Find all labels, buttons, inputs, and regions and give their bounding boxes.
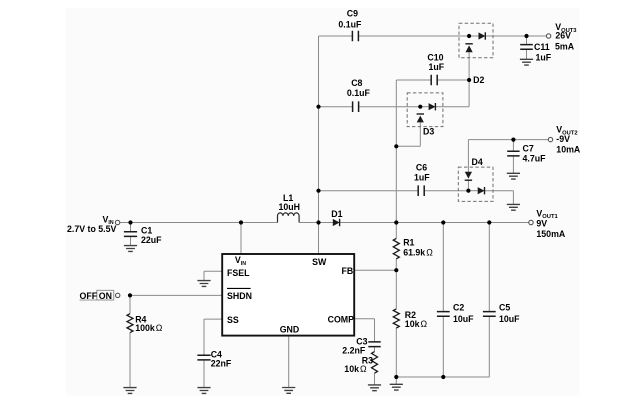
svg-text:R1: R1 xyxy=(403,238,414,248)
svg-text:C1: C1 xyxy=(141,226,152,236)
svg-text:D1: D1 xyxy=(331,209,342,219)
svg-text:1uF: 1uF xyxy=(429,62,445,72)
svg-text:C6: C6 xyxy=(416,162,427,172)
svg-text:-9V: -9V xyxy=(556,134,570,144)
svg-text:5mA: 5mA xyxy=(555,41,575,51)
svg-text:1uF: 1uF xyxy=(414,172,430,182)
svg-text:D3: D3 xyxy=(423,127,434,137)
svg-text:26V: 26V xyxy=(555,31,571,41)
svg-text:0.1uF: 0.1uF xyxy=(347,88,371,98)
svg-text:ON: ON xyxy=(99,291,112,301)
svg-text:10uH: 10uH xyxy=(279,202,301,212)
svg-text:SS: SS xyxy=(227,315,239,325)
svg-text:C2: C2 xyxy=(453,302,464,312)
svg-text:4.7uF: 4.7uF xyxy=(523,153,547,163)
svg-text:10kΩ: 10kΩ xyxy=(405,319,428,329)
svg-text:22nF: 22nF xyxy=(211,359,232,369)
svg-text:FSEL: FSEL xyxy=(227,268,250,278)
svg-text:10kΩ: 10kΩ xyxy=(344,364,367,374)
svg-text:SHDN: SHDN xyxy=(227,291,252,301)
svg-text:D2: D2 xyxy=(473,75,484,85)
svg-text:10uF: 10uF xyxy=(453,314,474,324)
svg-text:C7: C7 xyxy=(523,144,534,154)
svg-text:9V: 9V xyxy=(536,219,547,229)
svg-text:2.7V to 5.5V: 2.7V to 5.5V xyxy=(67,224,117,234)
svg-text:FB: FB xyxy=(342,266,354,276)
svg-text:10uF: 10uF xyxy=(499,314,520,324)
svg-text:C9: C9 xyxy=(347,9,358,19)
svg-text:C5: C5 xyxy=(499,302,510,312)
svg-text:61.9kΩ: 61.9kΩ xyxy=(403,248,433,258)
svg-text:1uF: 1uF xyxy=(536,52,552,62)
svg-text:22uF: 22uF xyxy=(141,235,162,245)
svg-text:OFF: OFF xyxy=(80,291,98,301)
svg-text:SW: SW xyxy=(312,257,327,267)
svg-text:2.2nF: 2.2nF xyxy=(342,345,366,355)
svg-text:150mA: 150mA xyxy=(536,229,565,239)
svg-text:COMP: COMP xyxy=(328,314,355,324)
svg-text:C11: C11 xyxy=(534,42,550,52)
svg-text:100kΩ: 100kΩ xyxy=(135,323,163,333)
svg-text:D4: D4 xyxy=(472,157,483,167)
svg-text:0.1uF: 0.1uF xyxy=(338,20,362,30)
svg-text:GND: GND xyxy=(280,325,300,335)
svg-text:10mA: 10mA xyxy=(556,145,581,155)
svg-text:C8: C8 xyxy=(351,78,362,88)
